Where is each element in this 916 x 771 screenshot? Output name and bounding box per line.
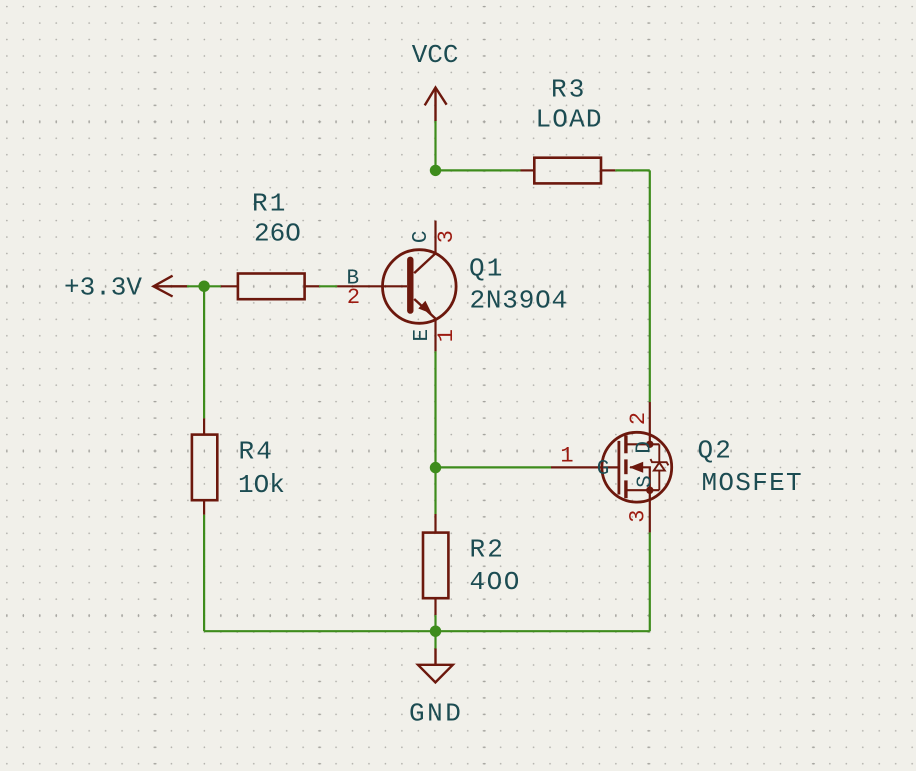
resistor R3: [521, 158, 616, 184]
ground symbol GND: [418, 649, 453, 683]
wire bottom rail: [204, 630, 650, 632]
junction node VCC: [430, 165, 441, 176]
svg-text:G: G: [597, 458, 610, 481]
wire emitter junction to Q2 gate: [436, 466, 552, 468]
transistor Q2 MOSFET: [551, 402, 672, 532]
junction node emitter: [430, 462, 441, 473]
svg-text:1: 1: [434, 329, 459, 342]
svg-text:VCC: VCC: [412, 40, 459, 70]
body diode: [651, 444, 669, 490]
svg-text:+3.3V: +3.3V: [64, 272, 142, 302]
wire right vertical down to Q2 drain: [649, 170, 651, 402]
wire junction down to R4: [203, 286, 205, 418]
wire Q2 source down to bottom rail: [649, 532, 651, 631]
svg-text:Q1: Q1: [469, 253, 505, 283]
svg-text:C: C: [410, 230, 433, 243]
svg-text:MOSFET: MOSFET: [702, 468, 803, 498]
wire +3.3V to junction: [187, 285, 221, 287]
resistor R1: [221, 274, 319, 300]
svg-text:D: D: [634, 441, 657, 454]
wire VCC stem: [434, 121, 436, 170]
svg-text:R4: R4: [239, 437, 275, 467]
svg-text:3: 3: [434, 230, 459, 243]
junction node left: [198, 281, 209, 292]
svg-text:GND: GND: [409, 698, 463, 728]
svg-text:4OO: 4OO: [470, 567, 521, 597]
resistor R4: [192, 418, 217, 514]
power symbol VCC: [425, 88, 447, 122]
svg-text:2: 2: [626, 412, 651, 425]
drain connection: [627, 443, 659, 445]
junction node ground: [430, 626, 441, 637]
svg-text:Q2: Q2: [698, 435, 734, 465]
transistor Q1: [337, 221, 456, 352]
channel segment middle: [624, 459, 627, 474]
svg-text:1Ok: 1Ok: [238, 470, 285, 500]
svg-text:LOAD: LOAD: [536, 105, 603, 135]
svg-text:R2: R2: [470, 535, 506, 565]
wire R3 to right corner: [615, 169, 650, 171]
wire top horizontal to R3: [436, 169, 521, 171]
wire junction to GND pin: [434, 631, 436, 648]
wire R2 bottom: [434, 615, 436, 631]
wire Q1 emitter down: [434, 351, 436, 514]
channel segment bottom: [624, 480, 627, 498]
resistor R2: [423, 514, 448, 615]
gate pin: [551, 466, 619, 468]
svg-text:R1: R1: [252, 189, 288, 219]
svg-text:2N39O4: 2N39O4: [470, 286, 568, 316]
wire R4 down to bottom rail: [203, 515, 205, 631]
source connection: [627, 489, 659, 491]
channel segment top: [624, 435, 627, 453]
substrate arrow: [630, 467, 650, 490]
svg-text:R3: R3: [551, 74, 587, 104]
wire R1 to Q1 base: [319, 285, 337, 287]
svg-text:E: E: [411, 329, 434, 342]
power symbol +3.3V: [154, 276, 188, 297]
svg-text:S: S: [634, 475, 657, 488]
svg-text:2: 2: [347, 285, 360, 310]
svg-text:26O: 26O: [254, 218, 301, 248]
gate electrode bar: [618, 441, 621, 495]
svg-text:1: 1: [560, 444, 573, 469]
svg-text:3: 3: [626, 510, 651, 523]
